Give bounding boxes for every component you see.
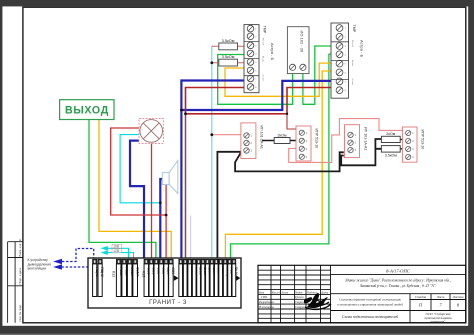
svg-text:Системы охранно-пожарной сигна: Системы охранно-пожарной сигнализации <box>339 297 402 302</box>
panel terminal СО2- <box>159 259 165 296</box>
note text to smoke removal device <box>28 258 52 271</box>
svg-text:СО3-: СО3- <box>171 267 175 276</box>
wire green loop strip1 to IO102 left screw <box>218 55 293 105</box>
wire yellow strip1 to strip2 <box>225 63 331 96</box>
svg-text:№док: №док <box>294 290 303 294</box>
svg-text:ВЫХОД: ВЫХОД <box>65 104 109 116</box>
wire violet to panel <box>190 216 192 260</box>
panel terminal ЛС1Л <box>116 259 122 296</box>
manual call point IPR 513-10 no2 <box>402 127 424 162</box>
wire black detector2 to resistors <box>341 139 381 165</box>
panel terminal ЗС1Л <box>127 259 133 296</box>
svg-text:ГИП: ГИП <box>260 295 268 299</box>
svg-text:Схема подключения оповещателей: Схема подключения оповещателей <box>342 314 399 319</box>
title block object address <box>345 279 451 290</box>
svg-text:2кОм: 2кОм <box>277 133 287 137</box>
wire yellow from sign ВЫХОД to panel <box>99 120 171 260</box>
svg-text:Грачев: Грачев <box>294 295 304 299</box>
panel terminal 12В- <box>219 259 225 296</box>
panel terminal ШС4+ <box>206 259 212 296</box>
panel terminal ПЦН2 <box>98 259 104 296</box>
panel terminal ШС4- <box>210 259 216 296</box>
control panel GRANIT-3 <box>88 258 241 308</box>
wire blue dashed to smoke removal device lower <box>53 263 99 270</box>
title block company name <box>424 312 452 323</box>
wire cyan 12V line with arrow <box>101 250 134 259</box>
svg-text:Астра - Б: Астра - Б <box>270 43 275 61</box>
svg-text:2кОм: 2кОм <box>386 132 396 136</box>
svg-text:8-А/17-ОПС: 8-А/17-ОПС <box>386 268 411 273</box>
svg-text:ЗСМ4: ЗСМ4 <box>135 267 139 276</box>
panel terminal ШС1+ <box>179 259 185 296</box>
wire blue dashed to smoke removal device upper <box>53 249 93 265</box>
magnetic contact IO 102-26 <box>287 27 309 74</box>
panel arrow marker 1 <box>174 275 179 281</box>
label 10V <box>112 244 122 248</box>
svg-text:3.5кОм: 3.5кОм <box>222 38 235 43</box>
panel relay label K12 <box>112 271 116 277</box>
panel arrow marker 2 <box>236 275 240 281</box>
wire navy lamp to panel <box>130 141 144 260</box>
panel terminal ПЦН1 <box>93 259 99 296</box>
wire black detector1 to detector2 <box>235 152 344 172</box>
title block grid <box>258 265 466 323</box>
panel terminal ШС3+ <box>197 259 203 296</box>
svg-text:Астра - Б: Астра - Б <box>360 40 365 58</box>
wire red strip1 to strip2 <box>186 88 332 114</box>
wire resistor R2 leads <box>212 62 244 64</box>
svg-text:ИП 101-1А-А1: ИП 101-1А-А1 <box>260 126 264 149</box>
svg-text:+U пит: +U пит <box>351 78 353 85</box>
left margin stamp boxes <box>8 242 23 323</box>
panel terminal СО2+ <box>154 259 160 296</box>
svg-text:Лист: Лист <box>280 290 289 294</box>
resistor R5 3.5kOm <box>381 146 400 158</box>
svg-text:+U пит: +U пит <box>262 74 264 81</box>
title block small texts <box>258 290 329 309</box>
svg-text:ИП 101-1А-А1: ИП 101-1А-А1 <box>364 127 368 150</box>
wire black resistor R3 leads <box>262 140 296 142</box>
svg-text:Подпись: Подпись <box>306 290 318 294</box>
panel terminal ШС3- <box>201 259 207 296</box>
svg-text:К12: К12 <box>112 271 116 277</box>
wire resistor R1 leads <box>212 45 244 47</box>
svg-text:Дата: Дата <box>320 290 329 294</box>
panel relay label K13 <box>141 271 145 277</box>
wire red lamp bottom to panel <box>151 143 153 259</box>
wire red speaker to panel <box>165 185 167 260</box>
svg-text:ТМР: ТМР <box>352 25 356 33</box>
panel terminal ЗСМ4 <box>133 259 139 296</box>
panel terminal ЛС2Л <box>122 259 128 296</box>
panel terminal ШС1- <box>183 259 189 296</box>
signature scribble <box>304 293 331 309</box>
svg-text:вентиляции: вентиляции <box>28 267 47 271</box>
wire red lamp feed <box>111 128 166 215</box>
terminal strip Astra-B left <box>244 25 275 93</box>
wire green IO102 right screw to strip2 <box>303 46 331 104</box>
svg-text:компания": компания" <box>431 319 447 323</box>
title block system name <box>337 297 403 307</box>
svg-text:ИПР 513-10: ИПР 513-10 <box>421 130 425 150</box>
wire black detector1 to panel <box>217 152 241 260</box>
wire navy branch to panel <box>180 110 182 260</box>
svg-text:Вх.шл: Вх.шл <box>351 60 353 67</box>
svg-text:Разработал: Разработал <box>258 300 275 304</box>
resistor R4 2kOm <box>381 132 400 142</box>
wire dark red branch to panel <box>185 114 187 260</box>
lamp HL1 <box>139 118 163 143</box>
panel terminal СО1- <box>149 259 155 296</box>
panel terminal СО3+ <box>164 259 170 296</box>
svg-text:Изм: Изм <box>258 290 264 294</box>
wire red salmon cyan junction to detector1 <box>212 134 241 136</box>
wire red branch to IPR1 terminal1 <box>287 114 296 129</box>
panel terminal 12В+ <box>214 259 220 296</box>
svg-text:Инв. № подл.: Инв. № подл. <box>18 304 22 322</box>
svg-text:ВЫХ: ВЫХ <box>234 267 238 275</box>
resistor R2 3.5kOm <box>219 54 238 66</box>
detector IP101 no2 <box>345 125 368 158</box>
junction dots <box>159 61 288 216</box>
svg-text:Реле/Л: Реле/Л <box>262 38 264 46</box>
svg-text:Реле/Л: Реле/Л <box>351 40 353 48</box>
title block document number <box>386 268 411 273</box>
wire cyan lamp to speaker node <box>120 135 160 203</box>
svg-text:3.5кОм: 3.5кОм <box>385 153 398 157</box>
svg-text:Подп. и дата: Подп. и дата <box>18 268 22 285</box>
svg-text:ПЦН2: ПЦН2 <box>100 267 104 277</box>
wire navy speaker to panel <box>160 179 162 260</box>
panel terminal ШС2- <box>192 259 198 296</box>
svg-text:Н.контроль: Н.контроль <box>258 305 275 309</box>
wire cyan resistor leads to panel <box>211 46 213 260</box>
manual call point IPR 513-10 no1 <box>296 126 319 161</box>
wire green strip2 to panel <box>231 54 332 260</box>
exit sign ВЫХОД <box>60 100 114 120</box>
label 12V <box>112 249 122 253</box>
resistor R1 3.5kOm <box>219 38 238 50</box>
svg-text:Лист: Лист <box>436 295 445 299</box>
title block stage table <box>415 295 464 308</box>
svg-text:ИО 102 - 26: ИО 102 - 26 <box>300 31 305 54</box>
panel terminal ВЫХ <box>232 259 238 296</box>
svg-text:Листов: Листов <box>452 295 464 299</box>
svg-text:10В: 10В <box>113 244 120 248</box>
svg-text:и оповещения и управления эвак: и оповещения и управления эвакуацией люд… <box>337 302 403 307</box>
title block sheet name <box>342 314 399 319</box>
svg-text:Стадия: Стадия <box>415 295 427 299</box>
wire green from sign ВЫХОД to panel <box>89 120 156 260</box>
detector IP101 no1 <box>241 123 264 159</box>
panel terminal СО1+ <box>144 259 150 296</box>
wire cyan 10V line with arrow <box>101 246 129 260</box>
wire yellow strip2 to panel <box>225 71 331 260</box>
svg-text:12В: 12В <box>113 249 120 253</box>
wire navy strip1 to strip2 <box>181 81 331 111</box>
svg-text:Взам. инв. №: Взам. инв. № <box>18 239 22 256</box>
panel terminal ШС2+ <box>188 259 194 296</box>
terminal strip Astra-B right <box>331 23 365 98</box>
svg-text:Кол.уч: Кол.уч <box>271 290 281 294</box>
svg-text:ТМР: ТМР <box>263 26 267 34</box>
resistor R3 2kOm <box>274 133 290 143</box>
svg-text:ГРАНИТ - 3: ГРАНИТ - 3 <box>149 300 187 306</box>
panel terminal ОБЩ <box>223 259 229 296</box>
wire black resistor R4 R5 right leads <box>400 139 402 148</box>
wire red salmon IPR1 to IPR2 loop <box>289 119 403 163</box>
svg-text:К13: К13 <box>141 271 145 277</box>
svg-text:Вх.шл: Вх.шл <box>262 56 264 63</box>
speaker BA1 <box>162 160 178 193</box>
svg-text:3.5кОм: 3.5кОм <box>222 54 235 59</box>
svg-text:ИПР 513-10: ИПР 513-10 <box>315 129 319 149</box>
panel terminal СО3- <box>169 259 175 296</box>
panel terminal РЕЗ <box>228 259 234 296</box>
